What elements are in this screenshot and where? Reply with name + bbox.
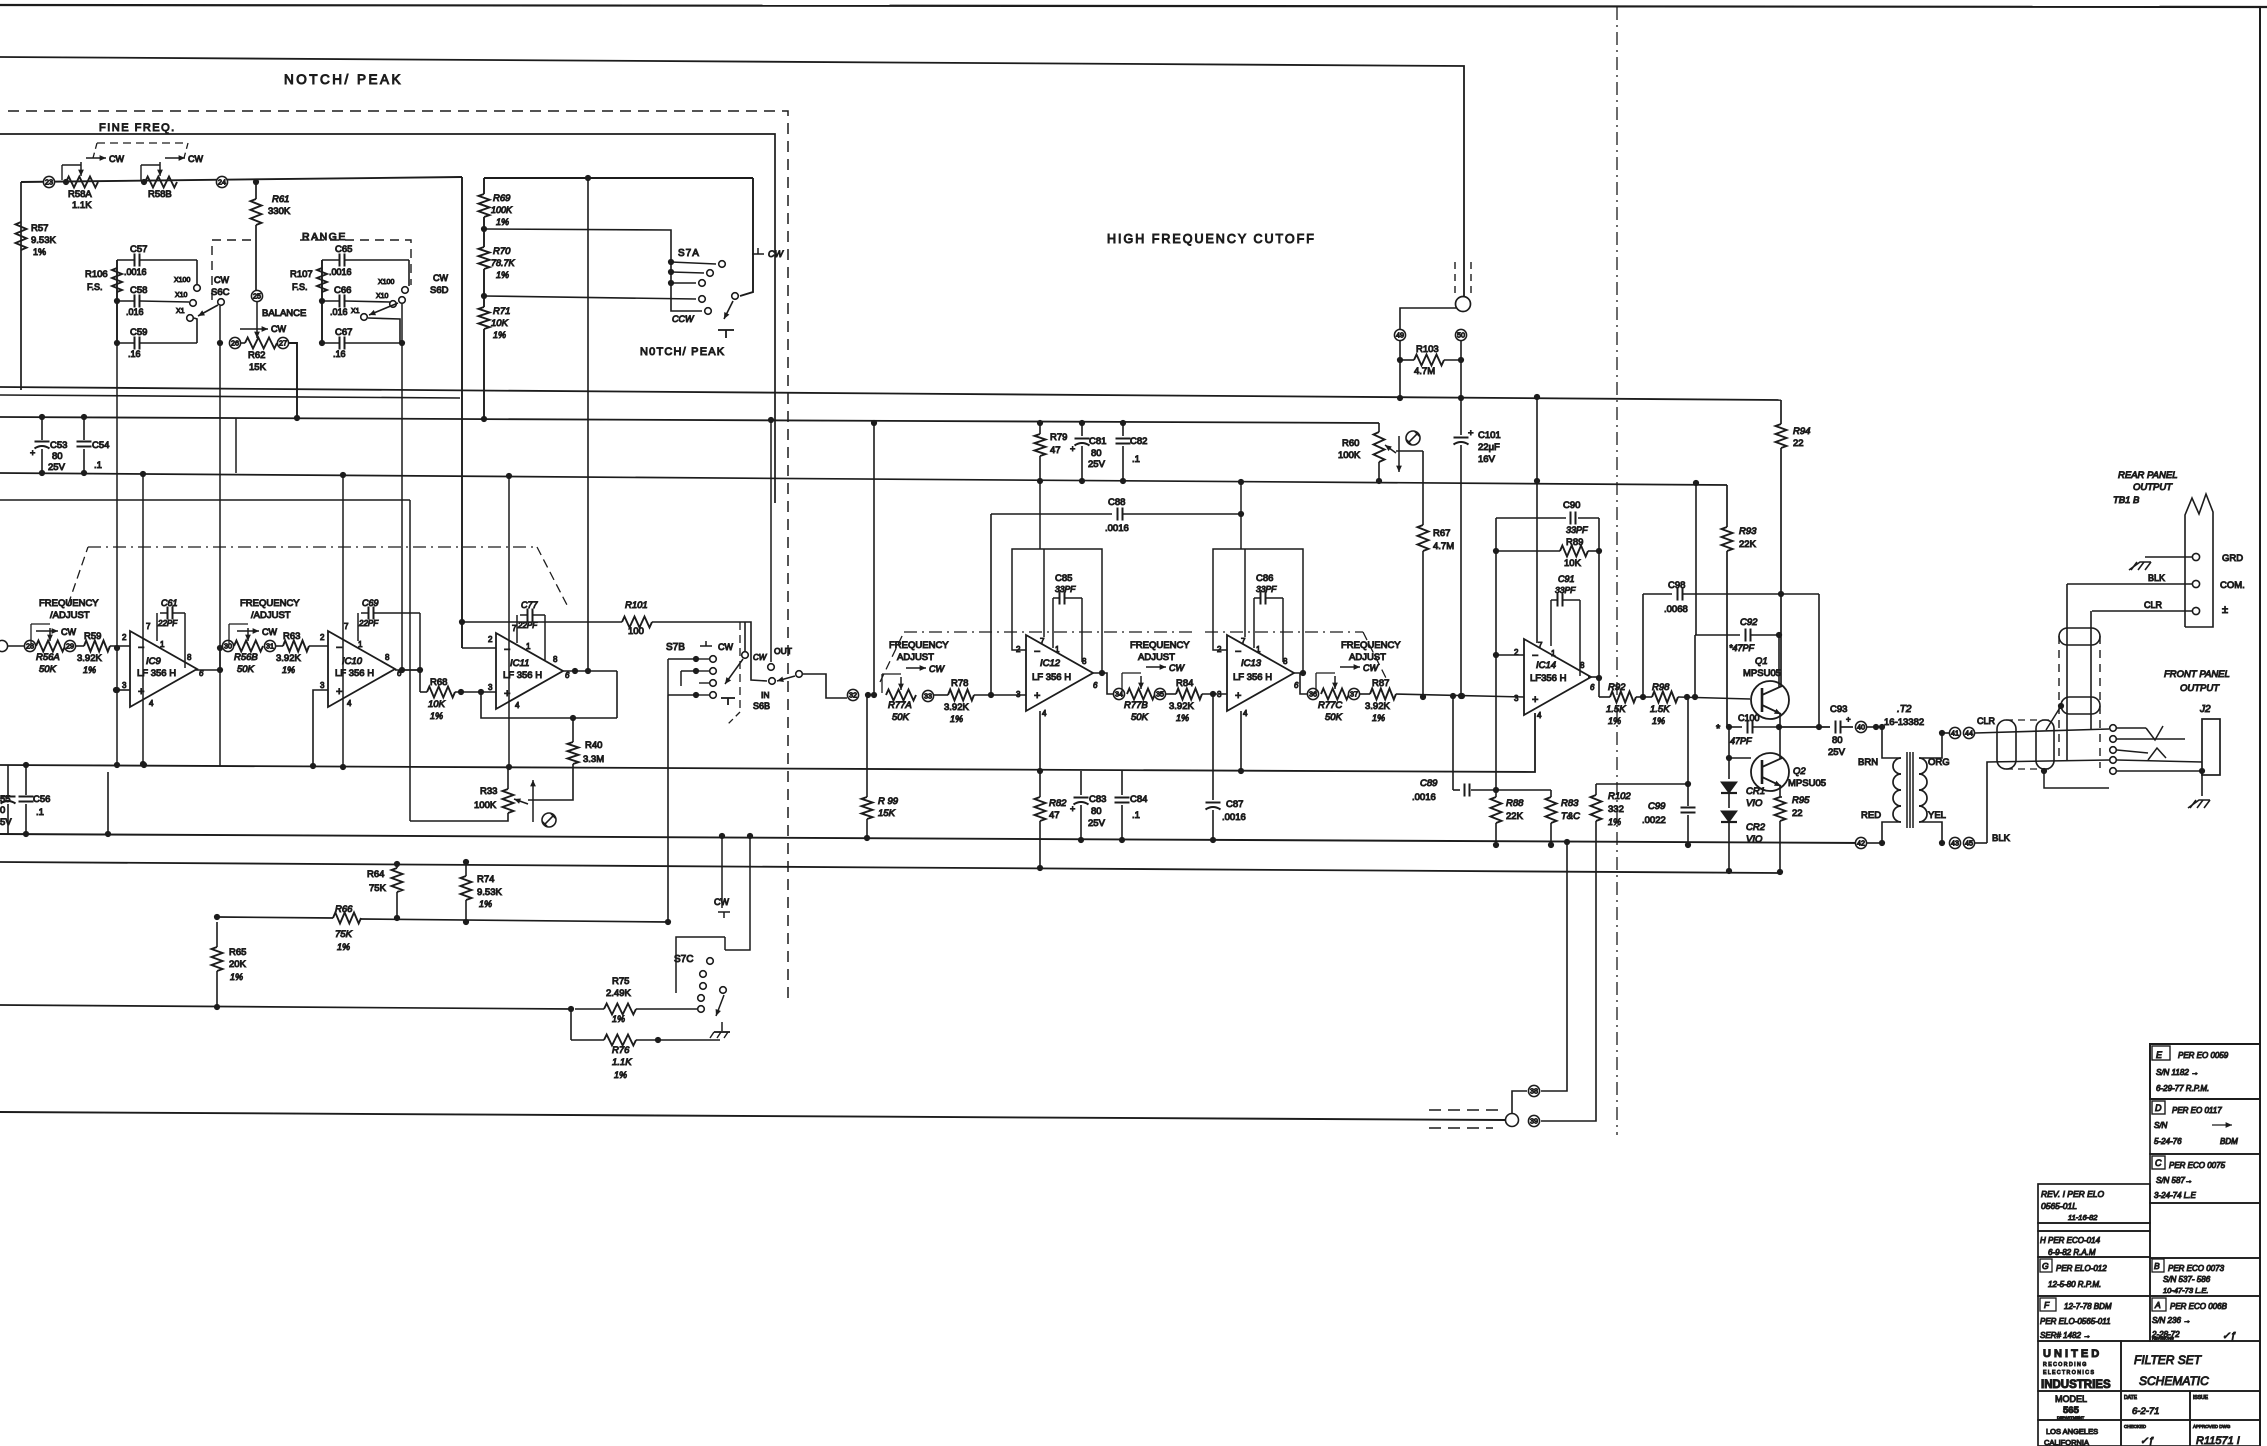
svg-text:3.92K: 3.92K bbox=[944, 702, 969, 713]
IC13 pin2 box bbox=[1213, 549, 1306, 676]
R102 label bbox=[1608, 791, 1631, 827]
svg-text:CW: CW bbox=[714, 897, 729, 907]
svg-text:.16: .16 bbox=[333, 349, 346, 359]
svg-text:.016: .016 bbox=[330, 307, 348, 317]
J2 ground bbox=[2188, 771, 2210, 808]
junction bbox=[1873, 724, 1879, 730]
R103 label bbox=[1414, 344, 1439, 377]
svg-text:100K: 100K bbox=[491, 205, 513, 215]
R82 label bbox=[1049, 798, 1067, 821]
node 40 bbox=[1855, 721, 1866, 732]
IC10 supply riser bbox=[340, 472, 346, 770]
wire R66 row bbox=[217, 917, 668, 922]
svg-text:+: + bbox=[1070, 444, 1075, 454]
resistor R70 bbox=[479, 247, 490, 269]
svg-text:75K: 75K bbox=[335, 929, 353, 940]
wire 39 riser bbox=[1541, 826, 1596, 1121]
capacitor C54 bbox=[77, 417, 92, 473]
svg-text:CW: CW bbox=[214, 275, 229, 285]
range dashed box bbox=[212, 240, 411, 300]
capacitor C100 bbox=[1716, 721, 1782, 736]
svg-text:±: ± bbox=[2222, 604, 2228, 616]
svg-text:CW: CW bbox=[262, 627, 277, 637]
resistor R67 bbox=[1418, 451, 1429, 700]
R107 label bbox=[290, 269, 313, 292]
svg-text:C65: C65 bbox=[335, 244, 352, 255]
svg-text:3: 3 bbox=[122, 681, 127, 690]
svg-text:IC13: IC13 bbox=[1241, 658, 1262, 669]
svg-text:80: 80 bbox=[52, 451, 63, 462]
transistor Q1 bbox=[1751, 681, 1789, 719]
vertical x874 bbox=[871, 420, 877, 695]
capacitor C77 bbox=[517, 609, 545, 661]
wire 49 down bbox=[1397, 341, 1403, 401]
svg-text:−: − bbox=[336, 642, 342, 654]
S7A arm bbox=[724, 293, 738, 319]
svg-text:29: 29 bbox=[66, 642, 74, 651]
R74 label bbox=[477, 874, 502, 909]
svg-text:45: 45 bbox=[1965, 839, 1973, 848]
svg-text:FILTER SET: FILTER SET bbox=[2134, 1353, 2203, 1367]
svg-text:78.7K: 78.7K bbox=[491, 258, 516, 268]
svg-text:LOS ANGELES: LOS ANGELES bbox=[2046, 1427, 2098, 1436]
svg-text:R76: R76 bbox=[612, 1045, 630, 1056]
svg-text:C56: C56 bbox=[33, 794, 50, 805]
svg-text:C93: C93 bbox=[1830, 704, 1847, 715]
svg-text:CW: CW bbox=[271, 324, 286, 334]
IC13 label bbox=[1233, 658, 1272, 683]
svg-text:VIO: VIO bbox=[1746, 798, 1763, 809]
T2 primary top lead BRN bbox=[1858, 727, 1901, 768]
svg-text:R77A: R77A bbox=[888, 700, 912, 711]
svg-text:8: 8 bbox=[385, 653, 390, 662]
svg-text:.16: .16 bbox=[128, 349, 141, 359]
resistor R106 bbox=[112, 268, 122, 292]
svg-text:CR2: CR2 bbox=[1746, 822, 1766, 833]
svg-text:33PF: 33PF bbox=[1256, 584, 1277, 594]
svg-text:100: 100 bbox=[628, 626, 644, 637]
svg-text:CW: CW bbox=[1169, 663, 1185, 673]
svg-text:R92: R92 bbox=[1608, 682, 1626, 693]
svg-text:44: 44 bbox=[1965, 729, 1973, 738]
IC12 pin7 riser bbox=[1040, 481, 1044, 637]
svg-text:1.1K: 1.1K bbox=[72, 200, 92, 211]
S7B arm bbox=[725, 659, 743, 684]
svg-text:4: 4 bbox=[1243, 709, 1248, 718]
CLR label bbox=[1977, 716, 1996, 726]
svg-text:ORG: ORG bbox=[1928, 757, 1950, 768]
svg-text:1.1K: 1.1K bbox=[612, 1057, 632, 1068]
svg-text:ADJUST: ADJUST bbox=[1138, 652, 1175, 663]
svg-text:5V: 5V bbox=[0, 817, 12, 828]
svg-text:LF356 H: LF356 H bbox=[1530, 673, 1567, 684]
resistor R82 bbox=[1035, 771, 1046, 871]
R77B label bbox=[1124, 700, 1149, 723]
svg-text:C82: C82 bbox=[1130, 436, 1147, 447]
C55 C56 labels bbox=[0, 794, 50, 828]
svg-text:CW: CW bbox=[188, 154, 203, 164]
svg-text:330K: 330K bbox=[268, 206, 291, 217]
R92 label bbox=[1606, 682, 1626, 726]
S6C common drop bbox=[217, 306, 223, 766]
svg-text:R106: R106 bbox=[85, 269, 108, 280]
svg-text:50K: 50K bbox=[1325, 712, 1343, 723]
svg-text:332: 332 bbox=[1608, 804, 1624, 815]
R58B label bbox=[148, 189, 172, 200]
pot R33 bbox=[503, 789, 529, 813]
capacitor C86 bbox=[1254, 592, 1283, 663]
svg-text:X10: X10 bbox=[376, 293, 389, 300]
svg-text:R56B: R56B bbox=[234, 652, 258, 663]
R95 label bbox=[1792, 795, 1810, 819]
node 42 bbox=[1855, 837, 1866, 848]
svg-text:3: 3 bbox=[1514, 694, 1519, 703]
svg-text:C58: C58 bbox=[130, 285, 147, 296]
junction bbox=[141, 179, 147, 185]
Q1 label bbox=[1743, 656, 1781, 679]
svg-text:C83: C83 bbox=[1089, 794, 1106, 805]
svg-text:C54: C54 bbox=[92, 440, 109, 451]
svg-text:R11571 I: R11571 I bbox=[2196, 1435, 2240, 1446]
svg-text:R103: R103 bbox=[1416, 344, 1439, 355]
svg-text:R33: R33 bbox=[480, 786, 497, 797]
svg-text:1%: 1% bbox=[496, 270, 509, 280]
S7B contacts bbox=[693, 656, 716, 699]
jack tip wire 1 bbox=[2117, 726, 2163, 740]
svg-text:E L E C T R O N I C S: E L E C T R O N I C S bbox=[2043, 1370, 2094, 1376]
svg-text:.0016: .0016 bbox=[124, 267, 147, 277]
svg-text:C90: C90 bbox=[1563, 500, 1580, 511]
R93 label bbox=[1739, 526, 1757, 550]
svg-text:2.49K: 2.49K bbox=[606, 988, 631, 999]
svg-text:16V: 16V bbox=[1478, 454, 1496, 465]
svg-text:−: − bbox=[1034, 646, 1040, 658]
vertical x117 bbox=[116, 343, 118, 765]
svg-text:24: 24 bbox=[218, 178, 226, 187]
svg-text:CR1: CR1 bbox=[1746, 786, 1765, 797]
FINE FREQ label bbox=[99, 122, 176, 134]
svg-text:C77: C77 bbox=[521, 600, 539, 610]
svg-text:C89: C89 bbox=[1420, 778, 1438, 789]
date cell bbox=[2124, 1395, 2159, 1417]
vertical fold centerline bbox=[1616, 7, 1618, 1135]
svg-text:1%: 1% bbox=[230, 972, 243, 982]
svg-text:R93: R93 bbox=[1739, 526, 1757, 537]
C84 label bbox=[1130, 794, 1147, 821]
svg-text:SER# 1482 →: SER# 1482 → bbox=[2040, 1331, 2091, 1340]
svg-text:28: 28 bbox=[26, 642, 34, 651]
rev D bbox=[2152, 1101, 2238, 1146]
R40 label bbox=[583, 740, 604, 765]
C61 label bbox=[157, 598, 178, 628]
svg-text:.0016: .0016 bbox=[1105, 523, 1129, 534]
R79 riser bbox=[1037, 420, 1043, 434]
svg-text:R61: R61 bbox=[272, 194, 289, 205]
junction bbox=[1210, 691, 1216, 697]
svg-text:9.53K: 9.53K bbox=[31, 235, 56, 246]
svg-text:1: 1 bbox=[160, 640, 165, 649]
pot R77C bbox=[1307, 663, 1379, 700]
sheet top border bbox=[0, 5, 2267, 7]
svg-text:1%: 1% bbox=[1608, 817, 1621, 827]
R62 wiper bbox=[254, 302, 260, 338]
checked cell bbox=[2124, 1424, 2154, 1446]
NOTCH/PEAK title bbox=[284, 72, 403, 87]
IC9 pin numbers bbox=[122, 622, 204, 708]
node 39 bbox=[1528, 1115, 1539, 1126]
svg-text:32: 32 bbox=[849, 691, 857, 700]
svg-text:CLR: CLR bbox=[2144, 600, 2163, 610]
svg-text:23: 23 bbox=[45, 178, 53, 187]
capacitor C58 bbox=[117, 295, 189, 308]
op-amp IC13 bbox=[1227, 635, 1294, 711]
svg-text:R77C: R77C bbox=[1318, 700, 1342, 711]
R79 label bbox=[1050, 432, 1067, 456]
op-amp IC9 bbox=[130, 631, 197, 707]
capacitor C81 bbox=[1070, 420, 1090, 484]
svg-text:C87: C87 bbox=[1226, 799, 1243, 810]
node 27 bbox=[277, 337, 288, 348]
junction bbox=[865, 692, 877, 698]
COM terminal bbox=[2192, 580, 2244, 591]
R59 label bbox=[77, 631, 102, 675]
R33 adjust arrow bbox=[530, 780, 536, 822]
node 28 stub bbox=[0, 640, 25, 651]
svg-text:CW: CW bbox=[929, 664, 945, 674]
svg-text:R95: R95 bbox=[1792, 795, 1810, 806]
svg-text:.1: .1 bbox=[36, 807, 44, 818]
IC12 pin2 box bbox=[1012, 549, 1105, 676]
IC9 pin3 wire bbox=[114, 645, 130, 768]
svg-text:6: 6 bbox=[1590, 683, 1595, 692]
transformer T2 core bbox=[1907, 752, 1913, 828]
S7A feed wires bbox=[484, 229, 702, 311]
svg-text:10K: 10K bbox=[1564, 558, 1582, 569]
node 38 bbox=[1528, 1085, 1539, 1096]
svg-text:0: 0 bbox=[0, 805, 5, 816]
svg-text:7: 7 bbox=[1241, 637, 1246, 646]
diode CR2 bbox=[1721, 793, 1737, 822]
capacitor C83 bbox=[1070, 771, 1089, 843]
svg-text:6-9-82 R.A.M: 6-9-82 R.A.M bbox=[2048, 1248, 2096, 1257]
svg-text:YEL: YEL bbox=[1928, 810, 1946, 821]
svg-text:RANGE: RANGE bbox=[302, 231, 347, 243]
plusminus terminal bbox=[2192, 604, 2228, 616]
resistor R107 bbox=[317, 268, 327, 292]
resistor R40 bbox=[528, 718, 579, 800]
svg-text:NOTCH/ PEAK: NOTCH/ PEAK bbox=[284, 72, 403, 87]
junction bbox=[2041, 768, 2047, 774]
pot R58B wiper bbox=[141, 162, 163, 180]
C85 label bbox=[1055, 573, 1076, 594]
svg-text:3-24-74 L.E: 3-24-74 L.E bbox=[2154, 1191, 2196, 1200]
svg-text:C86: C86 bbox=[1256, 573, 1273, 584]
resistor R64 bbox=[392, 861, 403, 921]
FREQUENCY ADJUST label 4 bbox=[1130, 640, 1190, 663]
svg-text:37: 37 bbox=[1350, 690, 1358, 699]
R63 label bbox=[276, 631, 301, 675]
dashed gang link R58 bbox=[93, 143, 188, 158]
resistor R75 bbox=[575, 1004, 697, 1015]
svg-text:1%: 1% bbox=[282, 665, 295, 675]
TB1B connector box bbox=[2185, 494, 2213, 627]
resistor R103 bbox=[1400, 355, 1461, 366]
svg-text:R67: R67 bbox=[1433, 528, 1450, 539]
T2 label bbox=[1884, 704, 1924, 728]
C53 label bbox=[48, 440, 67, 473]
pot R77A bbox=[882, 664, 945, 701]
svg-text:OUT: OUT bbox=[774, 646, 792, 656]
capacitor C88 net bbox=[991, 508, 1244, 696]
svg-text:Q2: Q2 bbox=[1793, 766, 1806, 777]
svg-text:1%: 1% bbox=[1176, 713, 1189, 723]
T2 primary bottom lead RED bbox=[1861, 810, 1901, 843]
capacitor C66 bbox=[322, 295, 390, 308]
svg-text:3.92K: 3.92K bbox=[1365, 701, 1390, 712]
pot R56B bbox=[229, 624, 263, 652]
T2 secondary top lead ORG bbox=[1919, 733, 1950, 768]
resistor R89 bbox=[1496, 546, 1599, 557]
svg-text:FREQUENCY: FREQUENCY bbox=[889, 640, 949, 651]
resistor R66 bbox=[214, 913, 361, 924]
IC14 output bbox=[1588, 677, 1599, 697]
R66 label bbox=[335, 904, 353, 952]
svg-text:49: 49 bbox=[1396, 331, 1404, 340]
C54 label bbox=[92, 440, 109, 471]
svg-text:4: 4 bbox=[515, 701, 520, 710]
S7C CW bbox=[714, 897, 730, 918]
svg-text:PER ELO-0565-011: PER ELO-0565-011 bbox=[2040, 1317, 2111, 1326]
svg-text:LF 356 H: LF 356 H bbox=[1233, 672, 1272, 683]
IC13 output bbox=[1293, 673, 1307, 694]
junction bbox=[39, 414, 87, 420]
R101 drop to S7B bbox=[742, 622, 749, 658]
svg-text:R87: R87 bbox=[1372, 678, 1389, 689]
svg-text:47PF: 47PF bbox=[1730, 736, 1752, 746]
svg-text:LF 356 H: LF 356 H bbox=[335, 668, 374, 679]
S7A contacts bbox=[699, 261, 726, 315]
transformer T2 secondary bbox=[1919, 758, 1927, 822]
svg-text:R98: R98 bbox=[1652, 682, 1670, 693]
C81 label bbox=[1088, 436, 1106, 470]
resistor R71 bbox=[479, 307, 490, 329]
R71 label bbox=[491, 306, 510, 340]
Q1 collector bbox=[1778, 635, 1780, 687]
capacitor C69 bbox=[358, 607, 420, 671]
svg-text:27: 27 bbox=[279, 339, 287, 348]
CR2 to ground rail bbox=[1726, 822, 1732, 874]
svg-text:C66: C66 bbox=[334, 285, 351, 296]
C59 label bbox=[128, 327, 147, 359]
S6B IN contact bbox=[753, 678, 775, 711]
svg-text:1%: 1% bbox=[493, 330, 506, 340]
R56B label bbox=[234, 652, 258, 675]
svg-text:50K: 50K bbox=[1131, 712, 1149, 723]
transistor Q2 bbox=[1751, 753, 1789, 791]
BALANCE label bbox=[240, 308, 306, 334]
C88 label bbox=[1105, 497, 1129, 534]
svg-text:G: G bbox=[2042, 1261, 2049, 1271]
node 49 bbox=[1394, 329, 1405, 340]
wire 41-44 bbox=[1942, 732, 1950, 734]
C66 label bbox=[330, 285, 351, 317]
S7B T ground bbox=[721, 698, 735, 705]
svg-text:10K: 10K bbox=[491, 318, 509, 329]
S7A T ground bbox=[718, 330, 734, 338]
svg-text:3.92K: 3.92K bbox=[77, 653, 102, 664]
rev C bbox=[2152, 1156, 2226, 1200]
svg-text:S/N 537- 586: S/N 537- 586 bbox=[2163, 1275, 2211, 1284]
svg-text:CALIFORNIA: CALIFORNIA bbox=[2044, 1438, 2089, 1446]
S6D common drop bbox=[399, 304, 420, 673]
wire R75 bus bbox=[0, 1005, 571, 1009]
C90 label bbox=[1563, 500, 1580, 511]
wire input row bbox=[21, 177, 462, 182]
Q1 emitter bbox=[1779, 714, 1781, 727]
resistor R74 bbox=[461, 859, 472, 925]
svg-text:R65: R65 bbox=[229, 947, 246, 958]
cable shield tap bbox=[2046, 703, 2064, 730]
S7C CW riser bbox=[719, 833, 725, 908]
R60 label bbox=[1338, 438, 1361, 461]
Q2 base wire bbox=[1726, 727, 1751, 761]
svg-text:55: 55 bbox=[0, 794, 11, 805]
X100 contact bbox=[378, 279, 408, 293]
svg-text:CCW: CCW bbox=[672, 314, 695, 324]
IC9 supply riser bbox=[140, 471, 146, 767]
svg-text:C67: C67 bbox=[335, 327, 352, 338]
svg-text:X1: X1 bbox=[351, 308, 360, 315]
R56A label bbox=[36, 652, 60, 675]
svg-text:1%: 1% bbox=[1372, 713, 1385, 723]
wire node27 drop bbox=[289, 343, 297, 418]
city cell bbox=[2044, 1427, 2098, 1446]
sheet right border bbox=[2259, 7, 2261, 1446]
wire R71 bottom bbox=[481, 329, 487, 422]
pot R77B bbox=[1113, 663, 1185, 700]
svg-text:.0016: .0016 bbox=[1222, 812, 1246, 823]
svg-text:25V: 25V bbox=[1088, 818, 1106, 829]
svg-text:3: 3 bbox=[488, 683, 493, 692]
S7C label bbox=[674, 954, 693, 965]
svg-text:.0022: .0022 bbox=[1642, 815, 1666, 826]
resistor R69 bbox=[479, 178, 490, 217]
approved cell bbox=[2193, 1424, 2240, 1446]
svg-text:/ADJUST: /ADJUST bbox=[50, 610, 90, 621]
R69 label bbox=[491, 193, 513, 227]
svg-text:S6C: S6C bbox=[211, 287, 230, 298]
resistor R63 bbox=[276, 641, 328, 652]
R76 label bbox=[612, 1045, 632, 1080]
svg-text:S7A: S7A bbox=[678, 248, 700, 259]
svg-text:R58A: R58A bbox=[68, 189, 92, 200]
S7A contact stubs bbox=[671, 262, 716, 283]
svg-text:PER ECO 0073: PER ECO 0073 bbox=[2168, 1264, 2225, 1273]
svg-text:8: 8 bbox=[553, 655, 558, 664]
svg-text:R56A: R56A bbox=[36, 652, 60, 663]
svg-text:CW: CW bbox=[768, 249, 784, 259]
S7C chassis gnd bbox=[710, 1022, 730, 1038]
svg-text:R74: R74 bbox=[477, 874, 494, 885]
IC11 pin2 stub bbox=[462, 647, 496, 649]
node 26 bbox=[229, 337, 240, 348]
C89 net bbox=[1453, 696, 1496, 797]
svg-text:100K: 100K bbox=[1338, 450, 1361, 461]
svg-text:REVISIONS: REVISIONS bbox=[2152, 1336, 2174, 1341]
capacitor C53 bbox=[30, 417, 50, 473]
svg-text:26: 26 bbox=[231, 339, 239, 348]
C82 label bbox=[1130, 436, 1147, 465]
